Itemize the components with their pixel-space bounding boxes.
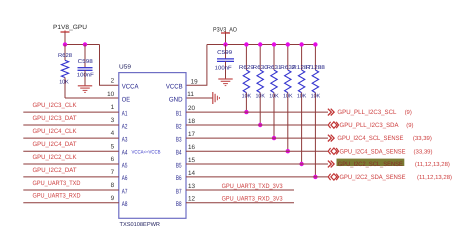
resistor R630 10K — [253, 45, 268, 126]
junction R1288 on B6 — [313, 175, 317, 179]
power symbol P1V8_GPU — [53, 24, 87, 44]
svg-text:100nF: 100nF — [215, 66, 233, 72]
wire net GPU_I2C2_CLK to pin A5 — [23, 154, 119, 164]
svg-text:6: 6 — [111, 156, 115, 163]
junction R631 on B3 — [272, 136, 276, 140]
svg-text:B4: B4 — [176, 150, 182, 157]
svg-text:R1288: R1288 — [306, 65, 325, 71]
svg-text:19: 19 — [191, 79, 199, 86]
svg-text:R631: R631 — [267, 65, 282, 71]
svg-text:10K: 10K — [59, 80, 69, 86]
resistor R632 10K — [280, 45, 295, 152]
junction R1287 on B5 — [299, 162, 303, 166]
wire P1V8 rail — [65, 44, 100, 46]
junction at R628/power — [63, 42, 67, 46]
wire VCCB to pin 19 — [186, 45, 207, 86]
junction R631 on rail — [272, 42, 276, 46]
svg-text:GPU_I2C2_CLK: GPU_I2C2_CLK — [33, 154, 78, 161]
svg-text:17: 17 — [188, 131, 196, 138]
svg-text:10K: 10K — [255, 94, 265, 100]
svg-text:16: 16 — [188, 144, 196, 151]
wire net GPU_I2C4_CLK to pin A3 — [23, 128, 119, 138]
resistor R629 10K — [239, 45, 254, 113]
wire net GPU_UART3_TXD_3V3 from pin B7 — [186, 183, 294, 190]
svg-text:100nF: 100nF — [77, 72, 95, 78]
svg-text:VCCB: VCCB — [166, 84, 183, 91]
svg-text:R630: R630 — [253, 65, 268, 71]
svg-text:GPU_I2C2_DAT: GPU_I2C2_DAT — [33, 167, 77, 174]
svg-text:B1: B1 — [176, 110, 182, 117]
svg-text:GPU_I2C4_SCL_SENSE: GPU_I2C4_SCL_SENSE — [337, 135, 403, 142]
junction R629 on rail — [244, 42, 248, 46]
svg-text:(11,12,13,28): (11,12,13,28) — [415, 161, 450, 168]
wire GND pin 11 — [186, 91, 213, 98]
svg-text:8: 8 — [111, 182, 115, 189]
svg-text:GPU_I2C3_CLK: GPU_I2C3_CLK — [33, 102, 78, 109]
svg-text:B6: B6 — [176, 175, 182, 182]
svg-text:(9): (9) — [405, 109, 412, 116]
svg-text:10K: 10K — [283, 94, 293, 100]
svg-text:9: 9 — [111, 195, 115, 202]
svg-text:A5: A5 — [122, 162, 128, 169]
capacitor C599 100nF — [215, 45, 234, 79]
svg-text:15: 15 — [188, 157, 196, 164]
junction R632 on rail — [286, 42, 290, 46]
svg-text:GPU_I2C4_CLK: GPU_I2C4_CLK — [33, 128, 78, 135]
svg-text:B7: B7 — [176, 188, 182, 195]
svg-text:10K: 10K — [311, 94, 321, 100]
svg-text:GPU_I2C4_DAT: GPU_I2C4_DAT — [33, 141, 77, 148]
svg-text:A4: A4 — [122, 150, 128, 157]
wire net GPU_I2C4_DAT to pin A4 — [23, 141, 119, 151]
svg-text:(33,39): (33,39) — [414, 148, 433, 155]
svg-text:(11,12,13,28): (11,12,13,28) — [417, 174, 452, 181]
svg-text:5: 5 — [111, 143, 115, 150]
svg-text:U59: U59 — [119, 63, 132, 70]
capacitor C598 100nF — [77, 45, 95, 86]
svg-text:GPU_UART3_RXD_3V3: GPU_UART3_RXD_3V3 — [222, 196, 283, 203]
power symbol P3V3_AO — [213, 26, 237, 44]
wire VCCA feed to pin 2 — [100, 45, 119, 86]
svg-text:B5: B5 — [176, 162, 182, 169]
svg-text:GPU_UART3_TXD_3V3: GPU_UART3_TXD_3V3 — [222, 183, 283, 190]
svg-text:C598: C598 — [78, 59, 93, 65]
junction at P3V3/C599 — [223, 42, 227, 46]
wire net GPU_PLL_I2C3_SCL from pin B1 — [186, 105, 412, 116]
wire net GPU_I2C3_CLK to pin A1 — [23, 102, 119, 112]
svg-text:2: 2 — [111, 78, 115, 85]
svg-text:1: 1 — [111, 104, 115, 111]
svg-text:A7: A7 — [122, 188, 128, 195]
wire P3V3 rail — [207, 44, 316, 46]
svg-text:VCCA: VCCA — [122, 84, 139, 91]
resistor R1288 10K — [306, 45, 325, 177]
wire net GPU_I2C2_SDA_SENSE from pin B6 — [186, 170, 452, 181]
junction R1287 on rail — [299, 42, 303, 46]
svg-text:R628: R628 — [58, 53, 72, 59]
wire net GPU_I2C3_DAT to pin A2 — [23, 115, 119, 125]
svg-text:18: 18 — [188, 118, 196, 125]
svg-text:3: 3 — [111, 117, 115, 124]
svg-text:A8: A8 — [122, 201, 128, 208]
svg-text:GPU_PLL_I2C3_SCL: GPU_PLL_I2C3_SCL — [337, 109, 396, 116]
svg-text:B8: B8 — [176, 201, 182, 208]
wire net GPU_UART3_TXD to pin A7 — [23, 180, 119, 190]
svg-text:GPU_PLL_I2C3_SDA: GPU_PLL_I2C3_SDA — [340, 122, 400, 129]
svg-text:R629: R629 — [239, 65, 254, 71]
junction R629 on B1 — [244, 110, 248, 114]
svg-text:P1V8_GPU: P1V8_GPU — [53, 24, 87, 31]
svg-text:GPU_I2C2_SDA_SENSE: GPU_I2C2_SDA_SENSE — [340, 174, 406, 181]
resistor R631 10K — [267, 45, 282, 139]
svg-text:10K: 10K — [269, 94, 279, 100]
svg-text:20: 20 — [188, 105, 196, 112]
svg-text:10K: 10K — [242, 94, 252, 100]
wire OE to pin 10 — [65, 91, 119, 98]
svg-text:GPU_I2C2_SCL_SENSE: GPU_I2C2_SCL_SENSE — [338, 161, 403, 168]
svg-text:C599: C599 — [217, 50, 232, 56]
wire net GPU_I2C2_SCL_SENSE from pin B5 — [186, 157, 450, 168]
ground (C598) — [78, 86, 92, 93]
svg-text:(9): (9) — [406, 122, 413, 129]
svg-text:OE: OE — [122, 96, 131, 103]
svg-text:4: 4 — [111, 130, 115, 137]
svg-text:(33,39): (33,39) — [413, 135, 432, 142]
junction R630 on B2 — [258, 123, 262, 127]
wire net GPU_I2C4_SCL_SENSE from pin B3 — [186, 131, 432, 142]
junction at C598 — [83, 42, 87, 46]
svg-text:11: 11 — [187, 91, 194, 98]
svg-text:GPU_UART3_TXD: GPU_UART3_TXD — [33, 180, 81, 187]
svg-text:B3: B3 — [176, 136, 182, 143]
svg-text:GPU_I2C4_SDA_SENSE: GPU_I2C4_SDA_SENSE — [340, 148, 406, 155]
resistor R628 10K — [58, 45, 72, 99]
svg-text:TXS0108EPWR: TXS0108EPWR — [120, 222, 161, 228]
svg-text:GPU_I2C3_DAT: GPU_I2C3_DAT — [33, 115, 77, 122]
svg-text:A3: A3 — [122, 136, 128, 143]
svg-text:7: 7 — [111, 169, 115, 176]
svg-text:A2: A2 — [122, 123, 128, 130]
junction R1288 on rail — [313, 42, 317, 46]
svg-text:13: 13 — [188, 183, 196, 190]
junction R632 on B4 — [286, 149, 290, 153]
resistor R1287 10K — [292, 45, 311, 165]
wire net GPU_I2C2_DAT to pin A6 — [23, 167, 119, 177]
IC U59 TXS0108EPWR — [119, 63, 186, 227]
svg-text:14: 14 — [188, 170, 196, 177]
wire net GPU_I2C4_SDA_SENSE from pin B4 — [186, 144, 433, 155]
svg-text:10: 10 — [107, 91, 115, 98]
svg-text:GND: GND — [169, 96, 183, 103]
svg-text:B2: B2 — [176, 123, 182, 130]
wire net GPU_PLL_I2C3_SDA from pin B2 — [186, 118, 414, 129]
svg-text:VCCA<=VCCB: VCCA<=VCCB — [132, 149, 161, 155]
svg-text:A6: A6 — [122, 175, 128, 182]
svg-text:GPU_UART3_RXD: GPU_UART3_RXD — [33, 193, 81, 200]
svg-text:10K: 10K — [297, 94, 307, 100]
wire net GPU_UART3_RXD_3V3 from pin B8 — [186, 196, 294, 203]
svg-text:A1: A1 — [122, 110, 128, 117]
ground (C599) — [218, 79, 232, 86]
ground (GND pin, sideways) — [213, 92, 220, 104]
junction R630 on rail — [258, 42, 262, 46]
svg-text:12: 12 — [188, 196, 196, 203]
wire net GPU_UART3_RXD to pin A8 — [23, 193, 119, 203]
